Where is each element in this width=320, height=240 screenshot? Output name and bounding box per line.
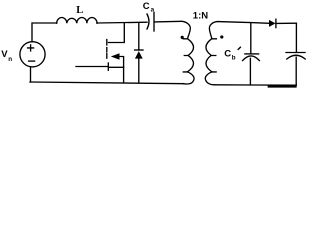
svg-text:L: L	[76, 5, 83, 16]
transistor Q1 drain lead	[109, 23, 125, 43]
transformer T1 secondary loop tails	[211, 39, 216, 72]
label Vin	[1, 49, 12, 63]
wire secondary top to diode D2	[218, 22, 269, 24]
wire diode D2 to output corner	[276, 22, 296, 24]
output capacitor top lead	[295, 23, 297, 52]
output capacitor curved plate	[287, 55, 305, 59]
inductor L	[57, 18, 97, 24]
diode D1 cathode bar	[135, 49, 143, 51]
transformer T1 primary loop tails	[183, 39, 188, 72]
diode D1 (antiparallel) anode lead	[138, 23, 140, 50]
capacitor Ca straight plate	[153, 13, 155, 32]
output capacitor bottom lead	[295, 57, 297, 85]
svg-text:n: n	[8, 56, 12, 63]
capacitor Cb top lead	[250, 23, 252, 54]
svg-text:a: a	[151, 6, 155, 13]
transistor Q1 channel dashes	[106, 40, 108, 59]
diode D1 lower lead	[138, 59, 140, 83]
diode D1 triangle	[135, 51, 143, 59]
svg-text:b: b	[232, 55, 236, 62]
wire Vin bottom lead	[30, 67, 32, 82]
output capacitor straight plate	[286, 52, 305, 54]
transistor Q1 source lead to ground rail	[120, 57, 124, 83]
svg-text:C: C	[143, 1, 150, 12]
transformer T1 primary polarity dot	[181, 36, 184, 39]
transistor Q1 gate lead	[76, 66, 108, 68]
svg-text:C: C	[224, 49, 231, 60]
label Ca	[143, 1, 155, 14]
diode D2 cathode bar	[275, 19, 277, 27]
transformer T1 secondary winding	[209, 22, 218, 39]
wire secondary-side ground rail	[215, 84, 297, 86]
transistor Q1 source bar	[110, 66, 124, 68]
transistor Q1 body arrow	[111, 53, 120, 60]
transformer T1 primary winding	[181, 21, 190, 38]
wire Vin top lead to inductor	[32, 23, 57, 42]
wire inductor to Ca	[97, 21, 147, 24]
diode D2 triangle	[269, 20, 276, 27]
voltage source Vin	[20, 42, 45, 67]
svg-text:V: V	[1, 49, 8, 60]
label 1:N	[193, 11, 208, 22]
transformer T1 secondary polarity dot	[220, 35, 223, 38]
wire primary-side ground rail	[30, 82, 184, 84]
capacitor Cb straight plate	[245, 53, 259, 55]
wire Ca to transformer primary	[155, 20, 182, 23]
capacitor Ca curved plate	[147, 14, 149, 29]
wire secondary ground rail thick segment	[269, 85, 296, 87]
label L	[76, 5, 83, 16]
label Cb	[224, 49, 236, 62]
capacitor Cb bottom lead	[249, 58, 251, 85]
transistor Q1 gate bar	[107, 63, 109, 70]
capacitor Cb curved plate	[243, 56, 260, 61]
capacitor Cb label prime tick	[238, 47, 240, 49]
svg-text:1:N: 1:N	[193, 11, 208, 22]
